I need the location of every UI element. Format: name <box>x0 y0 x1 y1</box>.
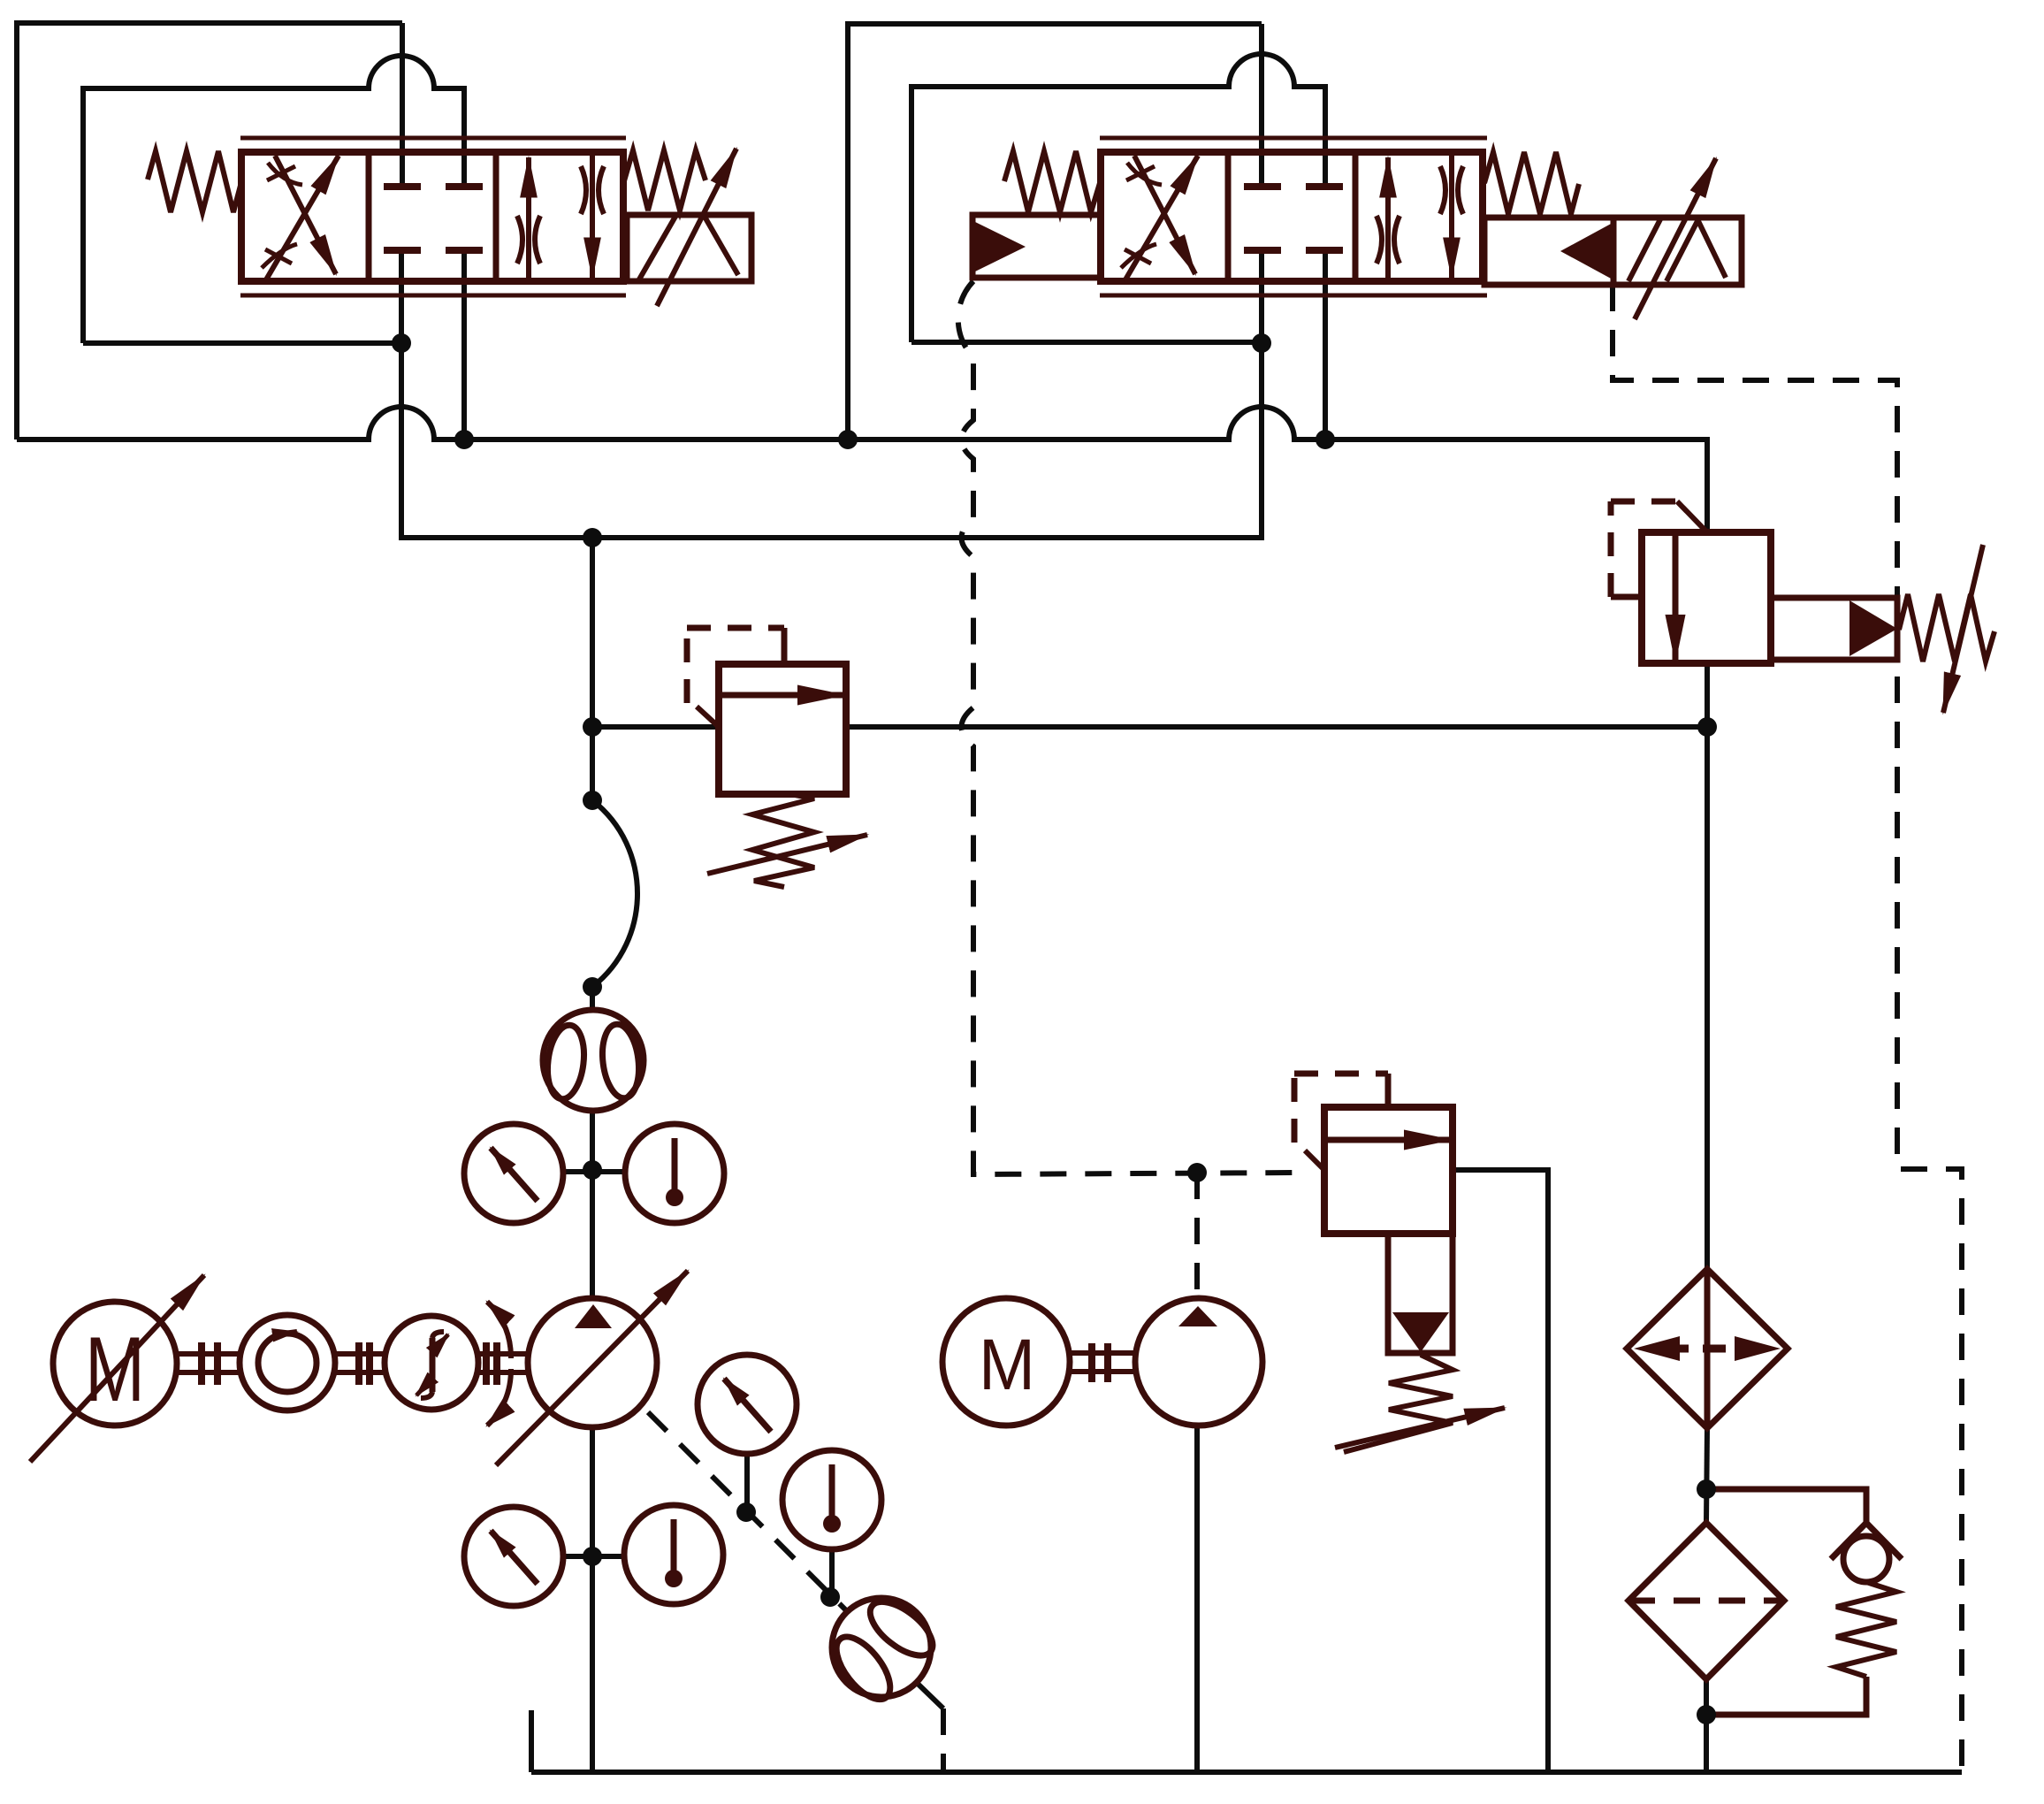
valve V1 solenoid arrow <box>657 149 736 306</box>
pressure valve PRV1 right box <box>1771 598 1897 660</box>
relief valve RV2 spring arrow <box>1335 1408 1505 1448</box>
node B2 on Y1 <box>1316 430 1335 449</box>
wire main column upper <box>590 538 595 800</box>
rotation arcs <box>487 1302 511 1358</box>
pressure gauge G3 <box>464 1507 563 1606</box>
relief valve RV1 spring <box>752 794 814 887</box>
relief valve RV1 pilot dashed <box>687 628 784 703</box>
check valve ball <box>1843 1536 1889 1582</box>
thermometer gauge G2 <box>625 1124 724 1223</box>
node outer2 on Y1 <box>838 430 858 449</box>
svg-text:M: M <box>979 1325 1035 1405</box>
node drain gauge 1 <box>736 1502 756 1522</box>
valve V1 throttle arcs down-arrow <box>581 166 604 214</box>
valve V2 body boxes <box>1101 152 1483 281</box>
motor M1 circle <box>53 1302 177 1426</box>
valve V1 long rails <box>240 138 626 295</box>
relief valve RV2 spring <box>1344 1355 1453 1452</box>
pump P2 circle <box>1135 1298 1262 1426</box>
valve V2 throttle arcs up-arrow <box>1377 216 1400 264</box>
valve V2 long rails <box>1100 138 1487 295</box>
dashed P2 pilot supply <box>1194 1173 1200 1298</box>
wire gauge drop to drain line 1 <box>744 1453 750 1511</box>
pump P1 triangle <box>575 1304 612 1328</box>
pressure valve PRV1 spring arrow <box>1943 545 1983 713</box>
pressure valve PRV1 internal down arrow <box>1673 532 1679 661</box>
filter diamond <box>1628 1523 1784 1679</box>
wire V2 port B down <box>1323 250 1328 440</box>
wire PRV column down <box>1705 663 1710 1269</box>
valve V2 right box flow arrows with throttles <box>1385 157 1391 281</box>
sensor C2 <box>385 1316 478 1410</box>
valve V1 right spring <box>623 150 705 210</box>
thermometer gauge G4 <box>624 1505 723 1604</box>
valve V2 left spring <box>1004 151 1100 212</box>
valve V2 right pilot triangle <box>1560 223 1613 279</box>
valve V2 left pilot triangle <box>973 221 1026 272</box>
wire main pressure line Y1 with two bridge humps <box>17 407 1707 532</box>
wire hose to flow meter <box>590 987 595 1011</box>
relief valve RV2 body <box>1324 1107 1453 1234</box>
shaft C2 to P1 <box>478 1354 528 1372</box>
valve V1 throttle arcs up-arrow <box>517 216 540 264</box>
node P2 pilot <box>1187 1163 1207 1182</box>
filter element dashed <box>1628 1598 1784 1604</box>
svg-text:M: M <box>85 1319 145 1421</box>
valve V2 right solenoid slashes <box>1628 219 1726 281</box>
relief valve RV2 internal arrow <box>1324 1137 1451 1143</box>
wire RV1 inlet <box>592 724 719 730</box>
valve V2 left box orifice curves <box>1126 163 1162 185</box>
pressure valve PRV1 right triangle <box>1850 600 1897 656</box>
relief valve RV1 body <box>719 664 846 794</box>
pump P1 circle <box>528 1298 657 1427</box>
relief valve RV1 pilot hook <box>697 707 719 727</box>
dashed drain from V2 right pilot to tank <box>1613 285 1962 1772</box>
bypass line bottom <box>1706 1677 1866 1715</box>
valve V1 center closed ports T bottom <box>384 247 483 254</box>
wire outer feedback loop V1 <box>17 23 402 440</box>
pressure valve PRV1 spring <box>1899 594 1994 661</box>
node column on Y2 <box>583 528 602 547</box>
pressure valve PRV1 pilot <box>1611 594 1642 600</box>
bypass line top <box>1706 1489 1866 1525</box>
dashed case drain diagonal from P1 <box>648 1412 846 1610</box>
dashed FM2 to tank <box>941 1708 946 1772</box>
valve V2 left pilot box <box>972 215 1101 278</box>
motor M1 variable arrow <box>30 1275 204 1462</box>
wire V1 port B down <box>461 250 467 440</box>
check valve spring <box>1836 1582 1896 1677</box>
node bypass bottom <box>1697 1705 1716 1724</box>
wire inner feedback loop V1 top with bridge hump <box>83 56 464 343</box>
valve V1 left box crossed arrows <box>265 156 339 281</box>
relief valve RV2 vent tube <box>1388 1234 1453 1353</box>
wire P2 suction <box>1194 1426 1200 1772</box>
valve V1 right box flow arrows with throttles <box>526 157 531 281</box>
valve V2 center closed ports T bottom <box>1244 247 1343 254</box>
node drain gauge 2 <box>820 1587 840 1607</box>
node lower gauges <box>583 1547 602 1566</box>
wire inner feedback loop V1 bottom <box>83 340 401 346</box>
wire outer feedback loop V2 <box>848 24 1262 440</box>
valve V1 body boxes <box>241 152 623 281</box>
pressure gauge G5 drain <box>698 1355 797 1454</box>
cooler diamond <box>1627 1269 1788 1428</box>
wire V2 port A top <box>1259 24 1264 187</box>
valve V2 throttle arcs down-arrow <box>1440 166 1463 214</box>
pressure gauge G1 <box>464 1124 563 1223</box>
cooler heat arrows <box>1666 1345 1749 1353</box>
wire lower gauge links <box>563 1554 624 1559</box>
wire cooler to filter <box>1706 1428 1707 1523</box>
wire flow meter to gauge junction to pump <box>590 1110 595 1298</box>
valve V1 left spring <box>148 151 241 212</box>
wire inner feedback loop V2 bottom <box>911 340 1262 345</box>
valve V2 solenoid arrow <box>1635 158 1716 319</box>
valve V2 right attachment box <box>1484 218 1742 285</box>
valve V1 right proportional solenoid box <box>627 215 751 281</box>
coupling C1 <box>240 1315 335 1410</box>
valve V2 right spring <box>1484 152 1579 214</box>
cooler through line <box>1705 1269 1711 1428</box>
pump P1 variable arrow <box>496 1271 688 1465</box>
wire V1 port A top <box>400 23 405 187</box>
wire RV2 outlet to tank <box>1453 1170 1548 1772</box>
hose flexible line <box>592 800 637 987</box>
node V2 inner loop <box>1252 333 1271 353</box>
wire pump suction to tank <box>590 1427 595 1772</box>
node V1 inner loop <box>392 333 411 353</box>
relief valve RV2 pilot dashed box <box>1294 1074 1388 1143</box>
valve V1 center closed ports T top <box>384 183 483 190</box>
shaft M2 to P2 <box>1070 1353 1135 1372</box>
thermometer gauge G6 drain <box>782 1450 881 1549</box>
node B1 on Y1 <box>454 430 474 449</box>
wire gauge drop to drain line 2 <box>829 1548 835 1596</box>
valve V2 left box crossed arrows <box>1125 156 1198 281</box>
relief valve RV2 pilot hook <box>1305 1150 1324 1170</box>
wire upper gauge links <box>563 1169 624 1174</box>
node upper gauges <box>583 1160 602 1180</box>
dashed drain from V2 left pilot with hops <box>958 281 1300 1174</box>
shaft C1 to C2 <box>335 1354 385 1372</box>
flow meter FM2 <box>812 1578 951 1717</box>
relief valve RV1 spring arrow <box>707 835 867 874</box>
shaft M1 to C1 <box>177 1354 240 1372</box>
wire inner feedback loop V2 top with bridge hump <box>911 54 1325 342</box>
relief valve RV2 vent triangle <box>1392 1312 1449 1352</box>
tank line <box>531 1710 1962 1772</box>
motor M2 circle <box>942 1298 1070 1426</box>
check valve seat <box>1831 1523 1902 1559</box>
wire FM2 outlet elbow <box>916 1682 943 1708</box>
valve V1 left box orifice curves <box>267 163 302 185</box>
wire RV1 outlet line Y3 <box>846 724 1707 730</box>
node Y3 right <box>1697 717 1717 737</box>
wire V1 port A down / line Y2 / V2 port A down <box>401 250 1262 538</box>
pump P2 triangle <box>1178 1306 1217 1326</box>
flow meter FM1 <box>543 1010 644 1111</box>
node bypass top <box>1697 1479 1716 1499</box>
node hose bottom <box>583 977 602 997</box>
node hose top <box>583 791 602 810</box>
relief valve RV1 internal arrow <box>719 692 844 699</box>
pressure valve PRV1 body <box>1642 532 1771 663</box>
wire filter to tank <box>1704 1679 1709 1772</box>
node RV1 inlet <box>583 717 602 737</box>
valve V2 center closed ports T top <box>1244 183 1343 190</box>
